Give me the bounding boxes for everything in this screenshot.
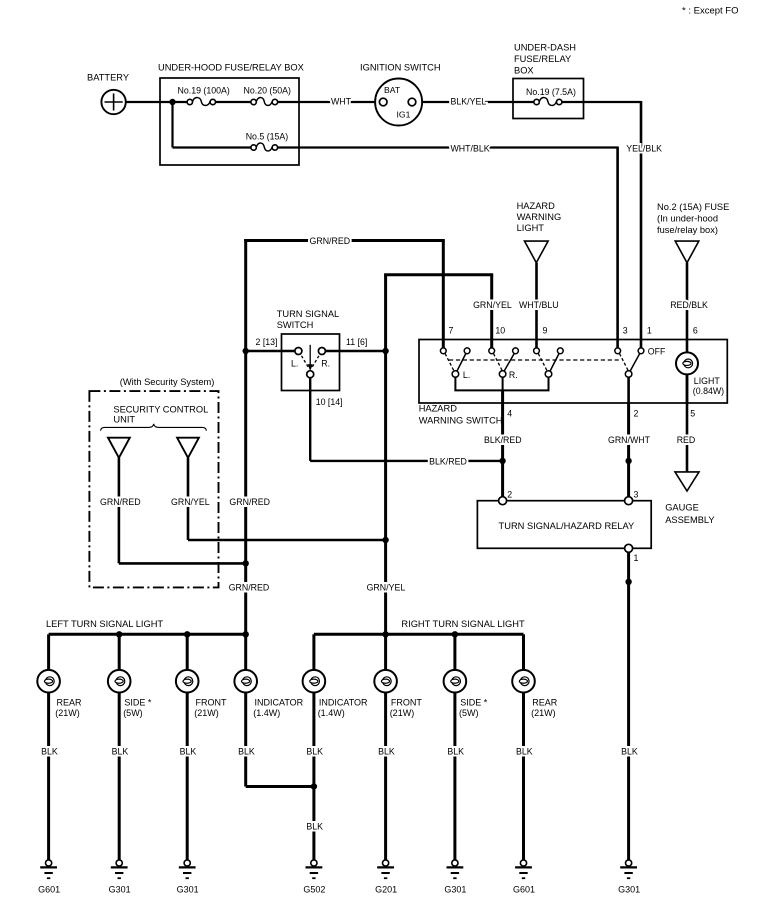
svg-text:SECURITY CONTROL: SECURITY CONTROL [113,405,208,415]
svg-text:(21W): (21W) [55,708,80,718]
svg-text:WHT: WHT [331,97,352,107]
svg-text:TURN SIGNAL: TURN SIGNAL [277,309,340,319]
svg-text:3: 3 [634,489,639,499]
svg-text:(1.4W): (1.4W) [253,708,280,718]
svg-text:L.: L. [291,359,298,369]
svg-text:BAT: BAT [384,85,401,95]
svg-text:UNDER-DASH: UNDER-DASH [514,42,576,52]
svg-text:IGNITION SWITCH: IGNITION SWITCH [360,63,441,73]
svg-text:BLK: BLK [238,747,255,757]
svg-text:No.20 (50A): No.20 (50A) [244,85,291,95]
svg-text:BLK: BLK [112,747,129,757]
svg-text:G601: G601 [38,884,60,894]
svg-text:(0.84W): (0.84W) [693,386,724,396]
svg-text:GRN/WHT: GRN/WHT [608,435,651,445]
svg-text:G301: G301 [177,884,199,894]
svg-text:GRN/RED: GRN/RED [229,497,270,507]
svg-text:FRONT: FRONT [196,697,227,707]
svg-text:BLK: BLK [621,747,638,757]
svg-text:LIGHT: LIGHT [694,376,721,386]
svg-text:10: 10 [495,326,505,336]
svg-text:(21W): (21W) [390,708,415,718]
svg-text:WHT/BLK: WHT/BLK [451,143,490,153]
svg-text:SIDE *: SIDE * [460,697,488,707]
svg-text:BLK/RED: BLK/RED [429,457,467,467]
svg-text:No.19 (7.5A): No.19 (7.5A) [526,87,576,97]
svg-text:1: 1 [647,326,652,336]
svg-text:(5W): (5W) [459,708,479,718]
svg-text:G301: G301 [444,884,466,894]
svg-text:BLK: BLK [306,747,323,757]
svg-text:10 [14]: 10 [14] [316,397,343,407]
svg-text:BLK/YEL: BLK/YEL [451,97,487,107]
svg-text:LIGHT: LIGHT [517,223,545,233]
svg-text:G601: G601 [513,884,535,894]
svg-text:(In under-hood: (In under-hood [657,214,718,224]
svg-text:GAUGE: GAUGE [665,503,699,513]
svg-text:BLK: BLK [306,822,323,832]
svg-text:FUSE/RELAY: FUSE/RELAY [514,54,571,64]
svg-text:2: 2 [507,489,512,499]
svg-text:BLK: BLK [516,747,533,757]
svg-text:RED/BLK: RED/BLK [670,300,708,310]
svg-text:WHT/BLU: WHT/BLU [519,300,559,310]
svg-text:fuse/relay box): fuse/relay box) [657,225,718,235]
svg-text:G201: G201 [375,884,397,894]
svg-text:3: 3 [623,326,628,336]
svg-text:TURN SIGNAL/HAZARD RELAY: TURN SIGNAL/HAZARD RELAY [499,521,635,531]
svg-text:(1.4W): (1.4W) [318,708,345,718]
svg-text:ASSEMBLY: ASSEMBLY [665,515,714,525]
svg-text:2: 2 [634,408,639,418]
svg-text:OFF: OFF [648,347,666,357]
svg-text:UNDER-HOOD FUSE/RELAY BOX: UNDER-HOOD FUSE/RELAY BOX [158,63,304,73]
svg-text:GRN/YEL: GRN/YEL [171,497,210,507]
svg-text:No.5 (15A): No.5 (15A) [246,131,289,141]
svg-text:INDICATOR: INDICATOR [255,697,304,707]
svg-text:1: 1 [634,553,639,563]
svg-text:BLK/RED: BLK/RED [484,435,522,445]
svg-text:(With Security System): (With Security System) [120,377,215,387]
svg-text:BLK: BLK [41,747,58,757]
svg-text:IG1: IG1 [397,110,411,120]
svg-text:* : Except FO: * : Except FO [682,6,739,17]
svg-text:G301: G301 [618,884,640,894]
svg-text:BATTERY: BATTERY [87,73,129,83]
svg-text:R.: R. [509,370,518,380]
svg-text:UNIT: UNIT [113,415,135,425]
svg-text:L.: L. [463,370,470,380]
svg-text:6: 6 [693,326,698,336]
svg-text:G502: G502 [303,884,325,894]
svg-text:BOX: BOX [514,65,534,75]
svg-text:GRN/YEL: GRN/YEL [473,300,512,310]
svg-text:No.2 (15A) FUSE: No.2 (15A) FUSE [657,202,729,212]
svg-text:5: 5 [690,408,695,418]
svg-text:INDICATOR: INDICATOR [319,697,368,707]
svg-text:REAR: REAR [532,697,558,707]
svg-text:R.: R. [321,359,330,369]
svg-text:RIGHT TURN SIGNAL LIGHT: RIGHT TURN SIGNAL LIGHT [401,619,525,629]
svg-text:No.19 (100A): No.19 (100A) [178,85,230,95]
svg-text:GRN/RED: GRN/RED [100,497,141,507]
svg-text:BLK: BLK [447,747,464,757]
svg-text:WARNING SWITCH: WARNING SWITCH [419,416,503,426]
svg-text:11 [6]: 11 [6] [346,337,367,347]
svg-text:WARNING: WARNING [517,212,562,222]
svg-text:HAZARD: HAZARD [419,404,458,414]
svg-text:RED: RED [677,435,696,445]
svg-text:7: 7 [449,326,454,336]
svg-text:SIDE *: SIDE * [124,697,152,707]
svg-text:BLK: BLK [180,747,197,757]
svg-text:LEFT TURN SIGNAL LIGHT: LEFT TURN SIGNAL LIGHT [46,619,163,629]
svg-text:(5W): (5W) [123,708,143,718]
svg-text:SWITCH: SWITCH [277,320,314,330]
svg-text:GRN/YEL: GRN/YEL [367,583,406,593]
svg-text:4: 4 [507,408,512,418]
svg-text:(21W): (21W) [194,708,219,718]
svg-text:BLK: BLK [378,747,395,757]
svg-text:GRN/RED: GRN/RED [310,236,351,246]
svg-text:FRONT: FRONT [391,697,422,707]
svg-text:9: 9 [543,326,548,336]
svg-text:2 [13]: 2 [13] [256,337,278,347]
svg-text:(21W): (21W) [531,708,556,718]
svg-text:YEL/BLK: YEL/BLK [626,143,662,153]
svg-text:REAR: REAR [57,697,83,707]
svg-text:G301: G301 [109,884,131,894]
svg-text:HAZARD: HAZARD [517,201,556,211]
svg-text:GRN/RED: GRN/RED [229,583,270,593]
